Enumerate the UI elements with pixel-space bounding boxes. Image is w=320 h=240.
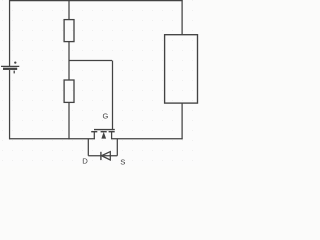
minus tick [13,71,15,74]
svg-text:D: D [82,157,88,166]
wire left rail lower [9,70,11,139]
wire R2 bottom lead [68,102,70,139]
resistor R1 [64,20,74,42]
load LD1 (box) [165,35,198,103]
transistor Q1 drain leg [93,132,95,139]
wire right rail upper [181,0,183,35]
battery BT1 [1,61,19,73]
diode D1 cathode bar [100,152,102,160]
long plate [1,65,19,67]
short thick plate [3,68,17,70]
transistor Q1 gate bar [94,129,115,131]
wire left rail upper [9,0,11,66]
wire bottom rail left (to drain) [9,138,95,140]
wire bottom rail right (source to right rail) [111,138,183,140]
wire right rail lower [181,103,183,139]
resistor R2 [64,80,74,102]
wire drain stub down [87,139,89,156]
transistor Q1 channel segments [91,131,97,133]
diode D1 triangle [102,152,111,160]
transistor Q1 body arrow [101,132,106,139]
svg-text:S: S [120,158,125,167]
svg-text:G: G [103,112,109,121]
wire gate vertical [112,61,114,130]
wire diode anode side [88,155,117,157]
wire divider node to gate [69,60,113,62]
transistor Q1 source leg [111,132,113,139]
wire source stub down [116,139,118,156]
wire R1 to R2 [68,42,70,80]
plus dot [14,61,16,63]
wire top rail [9,0,183,2]
wire R1 top lead [68,1,70,20]
